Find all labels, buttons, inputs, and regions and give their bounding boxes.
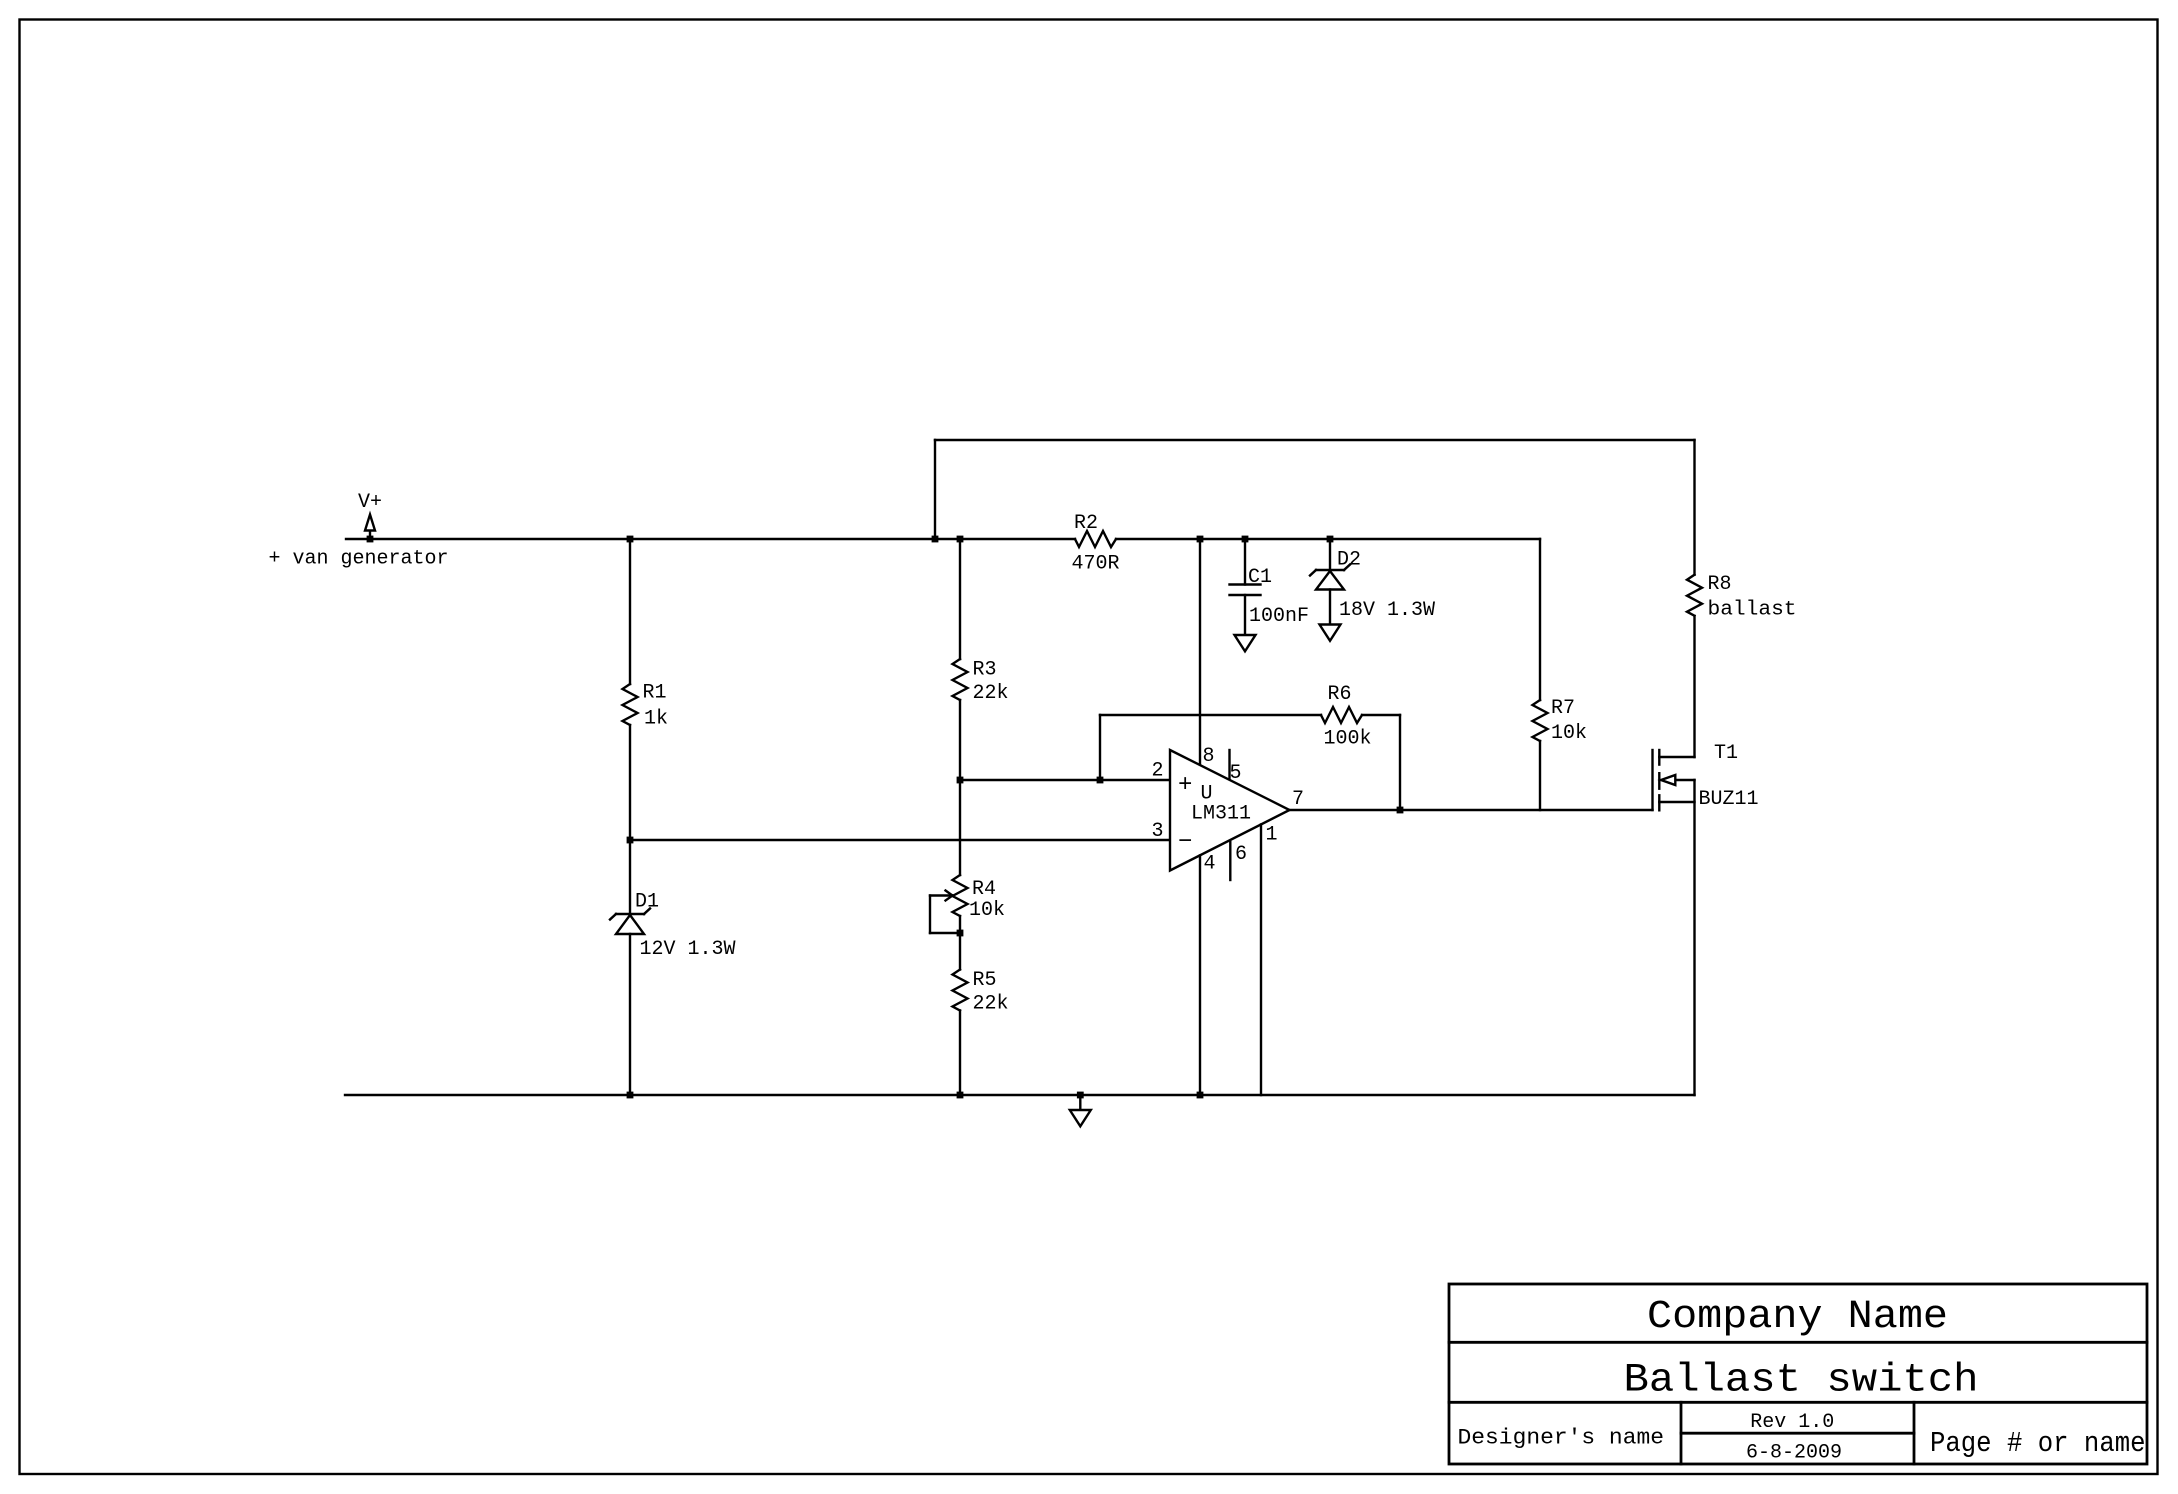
svg-text:100nF: 100nF <box>1249 605 1309 628</box>
resistor R5 (22k) <box>953 969 1009 1016</box>
junction dot ground rail/D1 <box>627 1092 634 1099</box>
svg-text:18V 1.3W: 18V 1.3W <box>1339 599 1435 622</box>
svg-text:7: 7 <box>1292 788 1304 811</box>
svg-text:−: − <box>1178 829 1192 856</box>
power symbol V+ <box>358 491 382 540</box>
svg-text:Page # or name: Page # or name <box>1930 1427 2146 1460</box>
wire: R6 left branch vertical <box>1099 715 1101 780</box>
svg-text:R5: R5 <box>973 969 997 992</box>
svg-text:V+: V+ <box>358 491 382 514</box>
wire: ground rail <box>345 1094 1695 1096</box>
wire: V+ rail right segment to R7 corner <box>1116 538 1540 540</box>
title text: Rev 1.0 <box>1750 1411 1834 1434</box>
node label: + van generator <box>269 548 449 571</box>
wire: R7 branch top lead <box>1539 539 1541 700</box>
wire: R8 top lead from feedback <box>1693 440 1695 575</box>
wire: R3 bottom to R4 top (crosses pin3 wire) <box>959 700 961 875</box>
wire: comparator output to gate <box>1290 809 1653 811</box>
svg-text:Company Name: Company Name <box>1647 1295 1948 1340</box>
wire: node to D1 cathode <box>629 840 631 914</box>
wire: pin 8 supply line <box>1199 539 1201 764</box>
svg-text:10k: 10k <box>1551 722 1587 745</box>
svg-text:10k: 10k <box>969 899 1005 922</box>
capacitor C1 (100nF) <box>1230 539 1310 635</box>
ground symbol below C1 <box>1235 635 1256 651</box>
svg-text:R4: R4 <box>972 878 996 901</box>
svg-text:5: 5 <box>1230 762 1242 785</box>
svg-text:8: 8 <box>1203 745 1215 768</box>
svg-text:Ballast switch: Ballast switch <box>1624 1359 1979 1404</box>
pin 6 stub and number <box>1230 842 1247 880</box>
junction dot rail/feedback <box>932 536 939 543</box>
pin 3 number <box>1152 820 1164 843</box>
resistor R3 (22k) <box>953 659 1009 706</box>
ground symbol on ground rail <box>1070 1092 1091 1127</box>
svg-text:C1: C1 <box>1248 566 1272 589</box>
pin 7 number <box>1292 788 1304 811</box>
title text: Company Name <box>1647 1295 1948 1340</box>
transistor T1 BUZ11 N-MOSFET <box>1653 742 1759 811</box>
wire: R7 bottom to output wire <box>1539 741 1541 810</box>
junction dot rail/R1 <box>627 536 634 543</box>
wire: V+ rail left segment <box>346 538 1075 540</box>
resistor R6 (100k) feedback <box>1321 683 1372 751</box>
wire: T1 source down to ground rail <box>1693 780 1695 1095</box>
svg-text:+ van generator: + van generator <box>269 548 449 571</box>
svg-text:1k: 1k <box>644 708 668 731</box>
svg-text:BUZ11: BUZ11 <box>1699 788 1759 811</box>
wire: R1 bottom to pin3 node <box>629 725 631 840</box>
svg-text:ballast: ballast <box>1708 599 1797 622</box>
zener diode D1 (12V 1.3W) <box>610 891 736 962</box>
wire: R8 bottom to T1 drain <box>1693 616 1695 757</box>
ground symbol below D2 <box>1320 625 1341 641</box>
svg-text:6-8-2009: 6-8-2009 <box>1746 1441 1842 1464</box>
svg-text:+: + <box>1178 772 1192 799</box>
wire: pin 3 input wire <box>630 839 1170 841</box>
title text: Page # or name <box>1930 1427 2146 1460</box>
resistor R8 (ballast) <box>1687 573 1797 622</box>
svg-text:R2: R2 <box>1074 512 1098 535</box>
svg-text:R6: R6 <box>1328 683 1352 706</box>
svg-text:6: 6 <box>1235 843 1247 866</box>
resistor R1 (1k) <box>623 682 669 731</box>
svg-text:3: 3 <box>1152 820 1164 843</box>
svg-text:LM311: LM311 <box>1191 803 1251 826</box>
svg-text:100k: 100k <box>1324 728 1372 751</box>
svg-text:D2: D2 <box>1337 549 1361 572</box>
junction dot at V+ stem <box>367 536 374 543</box>
wire: R1 branch top lead <box>629 539 631 684</box>
zener diode D2 (18V 1.3W) <box>1310 539 1435 625</box>
pin 1 line to ground rail <box>1261 824 1278 1096</box>
svg-text:12V 1.3W: 12V 1.3W <box>640 938 736 961</box>
svg-text:470R: 470R <box>1072 553 1120 576</box>
junction dot pin2/R6 branch <box>1097 777 1104 784</box>
junction dot rail/pin8 <box>1197 536 1204 543</box>
junction dot rail/R3 <box>957 536 964 543</box>
wire: R6 left horizontal <box>1100 714 1321 716</box>
wire: R6 right horizontal <box>1362 714 1400 716</box>
junction dot rail/D2 <box>1327 536 1334 543</box>
svg-text:D1: D1 <box>635 891 659 914</box>
svg-text:22k: 22k <box>973 682 1009 705</box>
wire: feedback branch vertical at rail <box>934 440 936 539</box>
junction dot output/R6 <box>1397 807 1404 814</box>
wire: R5 bottom to ground rail <box>959 1011 961 1096</box>
title text: Ballast switch <box>1624 1359 1979 1404</box>
svg-text:22k: 22k <box>973 993 1009 1016</box>
wire: D1 anode to ground rail <box>629 934 631 1095</box>
wire: R4 bottom to R5 top <box>959 916 961 970</box>
junction dot rail/C1 <box>1242 536 1249 543</box>
pin 5 stub and number <box>1230 750 1242 785</box>
title text: Designer's name <box>1458 1426 1665 1451</box>
junction dot ground rail/pin4 <box>1197 1092 1204 1099</box>
wire: feedback top horizontal to R8 <box>935 439 1695 441</box>
svg-text:4: 4 <box>1204 853 1216 876</box>
svg-text:Rev 1.0: Rev 1.0 <box>1750 1411 1834 1434</box>
resistor R2 (470R) in series with rail <box>1072 512 1120 575</box>
junction dot R3/pin2 wire <box>957 777 964 784</box>
resistor R7 (10k) <box>1533 697 1588 745</box>
pin 2 number <box>1152 760 1164 783</box>
svg-text:Designer's name: Designer's name <box>1458 1426 1665 1451</box>
junction dot ground rail/R5 <box>957 1092 964 1099</box>
comparator U LM311 triangle <box>1170 750 1290 871</box>
title block frame <box>1449 1284 2147 1464</box>
svg-text:R1: R1 <box>643 682 667 705</box>
wire: pin 2 input wire <box>960 779 1170 781</box>
junction dot R1/D1/pin3 node <box>627 837 634 844</box>
svg-text:T1: T1 <box>1714 742 1738 765</box>
wire: R6 right branch vertical to output <box>1399 715 1401 810</box>
potentiometer R4 (10k) <box>930 875 1005 933</box>
svg-text:R7: R7 <box>1551 697 1575 720</box>
svg-text:R8: R8 <box>1708 573 1732 596</box>
svg-text:1: 1 <box>1266 824 1278 847</box>
pin 4 line to ground rail <box>1200 853 1216 1096</box>
svg-text:2: 2 <box>1152 760 1164 783</box>
wire: R3 branch top lead <box>959 539 961 659</box>
junction dot R4 wiper/bottom <box>957 930 964 937</box>
svg-text:R3: R3 <box>973 659 997 682</box>
title text: 6-8-2009 <box>1746 1441 1842 1464</box>
pin 8 number <box>1203 745 1215 768</box>
